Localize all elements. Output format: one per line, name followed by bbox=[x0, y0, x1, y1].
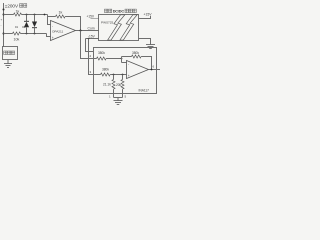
svg-text:+: + bbox=[128, 74, 130, 78]
node D2 top bbox=[34, 14, 36, 16]
isolated DC/DC converter U2 bbox=[99, 15, 139, 41]
resistor 20k bbox=[121, 75, 124, 98]
svg-text:21.1k: 21.1k bbox=[103, 83, 111, 87]
node inverting bbox=[121, 58, 123, 60]
svg-text:-: - bbox=[128, 62, 129, 66]
wire source to ground bbox=[7, 60, 9, 64]
node D1 bottom bbox=[26, 33, 28, 35]
resistor R bottom 10k bbox=[13, 32, 21, 35]
DC/DC title (CJK) bbox=[105, 9, 137, 14]
ground (source) bbox=[4, 64, 12, 68]
wire DC/DC common to ground bbox=[139, 39, 151, 45]
svg-text:+: + bbox=[52, 36, 54, 40]
wire non-inverting input jog bbox=[47, 34, 51, 37]
INA117 package box bbox=[94, 48, 157, 94]
resistor 21.1k bbox=[112, 75, 115, 98]
input wire (left vertical) bbox=[3, 3, 5, 47]
node bottom rail tap bbox=[3, 33, 5, 35]
wire top rail bbox=[4, 14, 14, 16]
svg-text:380k: 380k bbox=[98, 51, 105, 55]
ground (right of DC/DC) bbox=[146, 45, 155, 49]
node 21.1k tap bbox=[113, 74, 115, 76]
svg-text:+15V: +15V bbox=[87, 15, 95, 19]
svg-text:380k: 380k bbox=[102, 68, 109, 72]
node inverting rail junction bbox=[44, 14, 46, 16]
wire ref pins join bbox=[114, 97, 123, 99]
source box (CJK label) bbox=[3, 47, 18, 60]
svg-text:1k: 1k bbox=[16, 10, 20, 14]
node D2 bottom bbox=[34, 33, 36, 35]
svg-text:Com: Com bbox=[88, 27, 95, 31]
resistor 380k feedback bbox=[132, 55, 142, 58]
svg-text:PWS725: PWS725 bbox=[101, 21, 113, 25]
feedback wire (INA117) bbox=[122, 56, 132, 58]
input label ±200V max bbox=[5, 3, 27, 8]
svg-text:380k: 380k bbox=[132, 51, 139, 55]
node input terminal bbox=[3, 9, 5, 11]
wire inv node riser bbox=[121, 57, 123, 63]
svg-text:-: - bbox=[52, 24, 53, 28]
node output fb join bbox=[151, 69, 153, 71]
resistor 380k (pin3 input) bbox=[101, 73, 111, 76]
wire pin2 to inv node bbox=[106, 58, 121, 60]
isolation bolt 2 bbox=[120, 15, 137, 40]
svg-text:+15V: +15V bbox=[144, 12, 153, 16]
ground (ref pins) bbox=[114, 101, 123, 105]
resistor R top 1k bbox=[14, 13, 22, 16]
wire ref to ground bbox=[117, 98, 119, 101]
feedback wire bbox=[48, 16, 56, 18]
wire U1 output to Com pin bbox=[76, 30, 99, 32]
svg-text:DC/DC: DC/DC bbox=[113, 10, 125, 14]
op-amp U1 OPA211 bbox=[51, 21, 76, 41]
svg-text:10k: 10k bbox=[14, 37, 20, 41]
node D1 top bbox=[26, 14, 28, 16]
diode D2 (pointing down) bbox=[32, 15, 37, 34]
node top rail tap bbox=[3, 14, 5, 16]
wire inverting input drop bbox=[48, 15, 51, 25]
node 20k tap bbox=[122, 74, 124, 76]
svg-text:1k: 1k bbox=[59, 11, 63, 15]
feedback wire right bbox=[65, 17, 80, 31]
wire -15V down to INA box corner bbox=[86, 39, 94, 52]
wire pin3 to op-amp bbox=[110, 74, 126, 76]
wire +15V output right bbox=[139, 16, 151, 19]
isolation bolt 1 bbox=[108, 15, 125, 40]
svg-text:INA117: INA117 bbox=[139, 89, 150, 93]
wire -15V branch down to pin3 bbox=[89, 39, 101, 75]
op-amp U3 (INA117 internal) bbox=[127, 61, 149, 79]
svg-text:OPA211: OPA211 bbox=[52, 29, 64, 33]
svg-text:-15V: -15V bbox=[88, 35, 96, 39]
resistor Rf 1k bbox=[56, 15, 66, 18]
svg-text:20k: 20k bbox=[116, 83, 122, 87]
resistor 380k (pin2 input) bbox=[97, 57, 107, 60]
wire output bbox=[149, 69, 161, 71]
svg-text:+: + bbox=[1, 18, 3, 22]
feedback wire down to output bbox=[141, 57, 151, 70]
node output bbox=[80, 30, 82, 32]
wire -15V from DC/DC bbox=[86, 38, 99, 40]
wire inv stub to op-amp bbox=[122, 62, 127, 64]
diode D1 (pointing up) bbox=[24, 15, 29, 34]
wire bottom rail bbox=[4, 33, 13, 35]
wire +15V stub (left of DC/DC) bbox=[91, 18, 99, 20]
node -15V branch bbox=[88, 38, 90, 40]
wire signal down to INA117 pin2 bbox=[81, 31, 97, 59]
svg-text:-: - bbox=[1, 23, 2, 27]
svg-text:±200V: ±200V bbox=[5, 3, 19, 8]
